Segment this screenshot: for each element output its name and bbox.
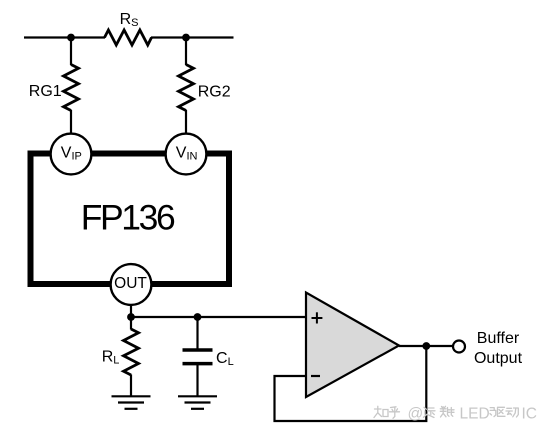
glyph 翔	[440, 406, 454, 417]
ground below CL	[178, 396, 217, 409]
node junction left (RG1 tap)	[67, 34, 75, 42]
wire OUT pin down	[130, 305, 132, 317]
glyph 驱	[490, 407, 505, 416]
pin VIN	[166, 134, 207, 175]
svg-text:@: @	[408, 406, 424, 423]
node OUT junction	[127, 313, 135, 321]
op-amp U1	[306, 293, 399, 398]
svg-text:IC: IC	[522, 406, 538, 423]
wire top horizontal left segment	[24, 36, 105, 38]
svg-text:OUT: OUT	[114, 275, 147, 292]
node junction right (RG2 tap)	[182, 34, 190, 42]
FP136 IC body	[31, 154, 230, 285]
wire OUT node to op-amp + input	[131, 316, 306, 318]
wire RG1 to VIP pin	[70, 110, 72, 135]
wire op-amp output	[399, 345, 453, 347]
glyph 动	[506, 408, 518, 417]
node CL tap	[194, 313, 202, 321]
svg-text:LED: LED	[460, 406, 490, 423]
pin OUT	[111, 264, 152, 305]
node output junction	[422, 342, 430, 350]
wire CL to ground	[196, 364, 198, 397]
resistor RG2	[179, 65, 194, 111]
wire from right node down to RG2	[185, 38, 187, 66]
pin VIP	[51, 134, 92, 175]
svg-text:Output: Output	[474, 350, 523, 367]
wire node to CL	[196, 317, 198, 350]
op-amp + input marker	[312, 312, 323, 323]
watermark 知乎 @远翔LED驱动IC	[374, 406, 518, 418]
wire top horizontal right segment	[151, 36, 234, 38]
wire feedback loop	[275, 346, 427, 421]
svg-text:FP136: FP136	[81, 198, 175, 238]
wire from left node down to RG1	[70, 38, 72, 66]
capacitor CL	[183, 350, 213, 364]
ground below RL	[112, 396, 151, 409]
wire RL to ground	[130, 375, 132, 397]
resistor RS	[105, 30, 152, 45]
svg-text:Buffer: Buffer	[477, 330, 520, 347]
glyph 知	[374, 406, 388, 417]
wire RG2 to VIN pin	[185, 110, 187, 135]
resistor RG1	[64, 65, 79, 111]
resistor RL	[124, 329, 139, 375]
buffer output terminal	[453, 341, 465, 353]
glyph 远	[424, 407, 436, 417]
wire node to RL	[130, 317, 132, 330]
svg-text:RG1: RG1	[29, 83, 62, 100]
op-amp - input marker	[311, 375, 320, 377]
glyph 乎	[390, 407, 400, 419]
svg-text:RG2: RG2	[198, 83, 231, 100]
